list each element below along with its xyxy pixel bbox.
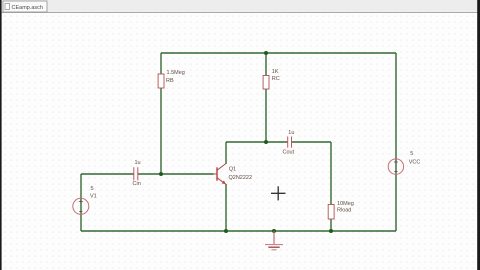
voltage source VCC [388,151,420,174]
resistor Rload [328,201,354,219]
wire: RB branch riser (left vertical) [160,53,162,174]
wire: output rail from Cout to Rload corner [292,141,331,143]
svg-text:5: 5 [91,186,94,192]
wire: RC branch riser [265,53,267,142]
svg-text:CEamp.asch: CEamp.asch [12,5,44,11]
right window border [477,0,480,270]
svg-text:Cin: Cin [133,181,141,187]
ground [265,231,283,250]
node: top rail / RC junction [264,51,268,55]
wire: collector rail (y=142) [226,141,287,143]
svg-text:Rload: Rload [337,208,351,214]
svg-text:1u: 1u [288,130,294,136]
svg-text:Q1: Q1 [229,166,236,172]
svg-text:RC: RC [272,76,280,82]
wire: base rail left of Cin [81,173,134,175]
node: collector rail / Cout junction [264,140,268,144]
wire: collector riser [225,142,227,164]
node: base rail / RB junction [159,172,163,176]
resistor RB [158,70,185,88]
wire: V1 riser [80,174,82,231]
svg-text:Q2N2222: Q2N2222 [229,175,253,181]
left window border [0,0,2,270]
wire: Rload branch riser [330,142,332,231]
wire: top supply rail [161,52,396,54]
wire: VCC riser [395,53,397,231]
resistor RC [263,69,280,89]
node: emitter / ground rail junction [224,229,228,233]
transistor Q1 Q2N2222 [214,164,252,185]
svg-text:10Meg: 10Meg [337,201,354,207]
svg-text:VCC: VCC [409,159,421,165]
tab bar background [2,0,478,13]
svg-text:V1: V1 [90,194,97,200]
svg-text:1u: 1u [135,160,141,166]
node: ground symbol junction [272,229,276,233]
capacitor Cin [133,160,141,187]
wire: bottom ground rail [81,230,396,232]
svg-text:1.5Meg: 1.5Meg [167,70,185,76]
svg-text:RB: RB [166,78,174,84]
svg-text:5: 5 [410,151,413,157]
svg-text:Cout: Cout [283,150,295,156]
active tab CEamp.asch [3,1,47,12]
voltage source V1 [73,186,97,214]
tab bar bottom divider [0,12,480,14]
node: Rload / ground rail junction [329,229,333,233]
mouse crosshair cursor [271,186,286,200]
svg-text:1K: 1K [272,69,279,75]
wire: base rail right of Cin [138,173,214,175]
wire: emitter riser [225,184,227,231]
capacitor Cout [283,130,295,156]
